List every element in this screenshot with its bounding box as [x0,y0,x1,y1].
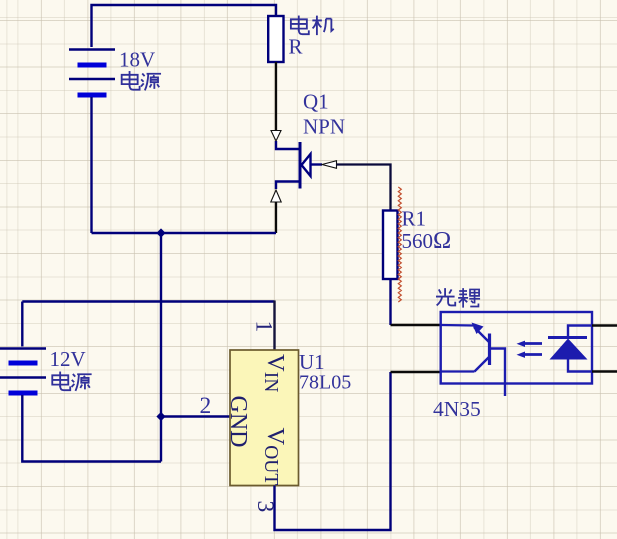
transistor Q1 body [276,141,322,189]
ERC red zigzag marker on R1 [398,187,401,302]
svg-text:GND: GND [225,396,251,448]
wire resistor R to Q1 collector [275,62,277,131]
wire base of Q1 to R1 [337,165,391,211]
junction node dot A [156,228,165,237]
resistor R1 body [383,211,398,280]
junction node dot B [156,412,165,421]
Q1 emitter pin arrow [271,190,281,202]
svg-text:R: R [289,35,303,59]
battery BT2 12V symbol plates [0,349,46,394]
resistor R (motor) body [268,16,283,62]
svg-text:2: 2 [200,393,212,419]
label dianyuan for 18V battery [122,71,140,90]
wire 12V battery top rail to U1 pin1 [22,300,274,302]
wire 12V battery leads [22,302,161,462]
opto phototransistor emitter arrowhead [472,323,484,335]
svg-text:NPN: NPN [303,115,345,139]
Q1 base pin arrow [322,161,337,169]
wire Q1 emitter down to node [275,202,277,233]
opto phototransistor [441,325,505,396]
label guang'ou (optocoupler) [436,288,455,305]
Q1 collector pin arrow [271,131,281,142]
svg-text:R1: R1 [402,207,427,231]
label dianji (motor) [291,16,309,35]
svg-text:560Ω: 560Ω [402,227,452,254]
wire 18V battery negative lead down [90,97,92,233]
svg-text:Q1: Q1 [303,90,329,114]
opto LED triangle [550,339,588,360]
wire node row under battery [92,232,277,234]
optocoupler U2 box [441,312,592,384]
wire trunk vertical [160,233,162,462]
battery BT1 18V symbol plates [69,50,115,96]
wire node B to U1 pin 2 [161,415,230,417]
svg-text:12V: 12V [50,347,86,371]
opto LED [548,326,592,372]
opto light emission arrows [517,341,543,358]
svg-text:U1: U1 [299,350,325,374]
svg-text:4N35: 4N35 [433,397,481,421]
svg-text:1: 1 [251,321,277,333]
wire U1 pin3 to optocoupler lower pin [275,372,391,530]
label dianyuan for 12V battery [52,372,70,391]
svg-text:18V: 18V [119,48,155,72]
wire R1 bottom to optocoupler pin [389,279,391,325]
regulator U1 yellow body [230,350,299,486]
wire top loop from 18V battery to motor resistor [92,5,277,47]
svg-text:78L05: 78L05 [299,372,351,394]
opto right side pins to edge [592,326,617,372]
